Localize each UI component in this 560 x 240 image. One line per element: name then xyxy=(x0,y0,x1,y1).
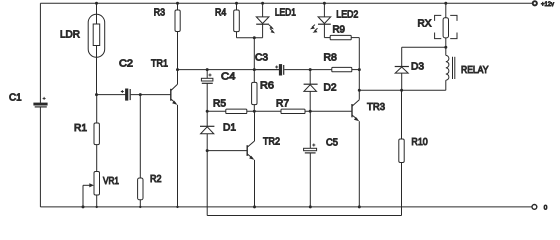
resistor R10 xyxy=(399,90,428,215)
resistor R4 xyxy=(215,3,239,37)
resistor R1 xyxy=(74,95,99,172)
resistor R5 xyxy=(213,98,247,113)
svg-text:R2: R2 xyxy=(150,174,162,185)
node C5 rail junction xyxy=(309,205,312,208)
node C3-R8-D2 junction xyxy=(309,68,312,71)
wire D3 top to RX xyxy=(402,46,446,48)
svg-text:R5: R5 xyxy=(213,98,226,109)
resistor R3 xyxy=(154,3,180,31)
transistor TR3 xyxy=(352,70,385,207)
svg-text:R7: R7 xyxy=(276,98,289,109)
svg-text:0: 0 xyxy=(544,204,548,211)
node LED1 top junction xyxy=(261,2,264,5)
svg-text:C1: C1 xyxy=(9,92,22,103)
capacitor C4 xyxy=(201,70,235,112)
svg-text:LED1: LED1 xyxy=(275,8,296,19)
node TR1 emitter rail junction xyxy=(176,206,178,208)
wire R5-R7 base line xyxy=(207,110,352,112)
svg-text:C5: C5 xyxy=(326,138,338,149)
resistor R6 xyxy=(252,38,275,112)
node base line junctions xyxy=(206,110,312,113)
node LDR top junction xyxy=(95,2,98,5)
resistor RX with dashed box xyxy=(418,3,458,47)
terminal 0 xyxy=(532,204,548,211)
terminal +12v xyxy=(533,1,555,8)
svg-text:R6: R6 xyxy=(260,81,274,92)
svg-text:D3: D3 xyxy=(411,62,424,73)
wire top +12v rail xyxy=(40,2,532,4)
svg-text:+12v: +12v xyxy=(541,1,555,8)
wire R4-LED1 jumper xyxy=(237,37,263,39)
wire left vertical branch xyxy=(39,3,41,207)
wire bottom 0V rail xyxy=(40,206,532,208)
svg-text:R1: R1 xyxy=(74,123,87,134)
node RX top junction xyxy=(444,2,447,5)
node LED2 top junction xyxy=(323,2,326,5)
node R4 top junction xyxy=(235,2,238,5)
node D1 TR2-base junction xyxy=(206,149,209,152)
capacitor C3 xyxy=(254,53,310,75)
resistor R9 xyxy=(324,25,359,70)
svg-text:R8: R8 xyxy=(324,53,338,64)
svg-text:RELAY: RELAY xyxy=(461,65,489,76)
svg-text:RX: RX xyxy=(418,19,432,30)
relay coil RELAY xyxy=(446,47,489,90)
svg-text:C4: C4 xyxy=(221,72,236,83)
LED2 xyxy=(310,3,359,37)
svg-text:D2: D2 xyxy=(324,83,337,94)
svg-text:R10: R10 xyxy=(411,137,428,148)
node collector wire junctions xyxy=(176,68,256,71)
node TR3 collector junction xyxy=(358,89,361,209)
svg-text:TR1: TR1 xyxy=(151,59,168,70)
node RX bottom junction xyxy=(444,46,447,49)
svg-text:VR1: VR1 xyxy=(103,176,119,187)
LED1 xyxy=(256,3,296,37)
svg-text:LED2: LED2 xyxy=(336,10,358,21)
transistor TR2 xyxy=(207,111,280,207)
node R3 top junction xyxy=(176,2,179,5)
node jumper junction xyxy=(253,36,256,39)
LDR xyxy=(60,3,105,94)
capacitor C5 xyxy=(304,111,339,207)
svg-text:C2: C2 xyxy=(119,59,133,70)
svg-text:R3: R3 xyxy=(154,8,166,19)
node TR2 emitter rail junction xyxy=(253,205,256,208)
potentiometer VR1 xyxy=(83,172,119,207)
diode D3 xyxy=(395,47,425,90)
wire TR1 collector to C3 xyxy=(178,69,280,71)
wire TR3 collector to relay xyxy=(359,89,446,91)
resistor R8 xyxy=(310,53,359,72)
node VR1 wiper junction xyxy=(82,205,98,208)
capacitor C1 xyxy=(9,92,47,107)
diode D1 xyxy=(200,111,236,215)
svg-text:C3: C3 xyxy=(255,53,268,64)
svg-text:TR2: TR2 xyxy=(263,137,280,148)
resistor R7 xyxy=(276,98,305,113)
svg-text:R4: R4 xyxy=(215,8,227,19)
resistor R2 xyxy=(138,95,162,207)
svg-text:TR3: TR3 xyxy=(367,102,385,113)
node D3/R10 junction xyxy=(400,89,403,92)
transistor TR1 xyxy=(151,32,178,207)
node C2 tap junction xyxy=(95,93,98,96)
wire lower ground link xyxy=(207,215,401,217)
svg-text:LDR: LDR xyxy=(60,30,80,41)
capacitor C2 xyxy=(97,59,171,101)
svg-text:D1: D1 xyxy=(223,122,236,133)
node R8-R9 junction xyxy=(358,68,361,71)
node R2 top junction xyxy=(139,93,142,208)
diode D2 xyxy=(304,70,337,112)
svg-text:R9: R9 xyxy=(333,25,346,36)
